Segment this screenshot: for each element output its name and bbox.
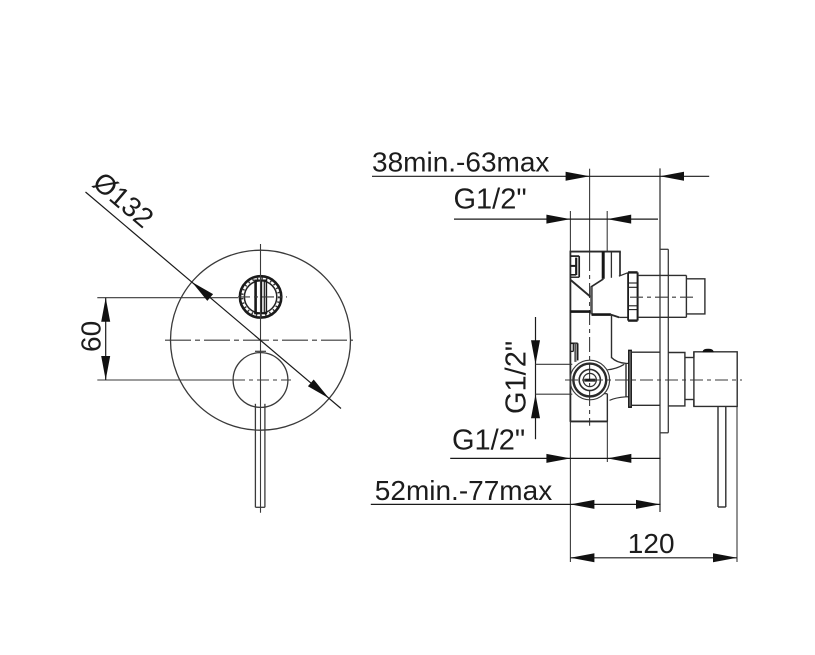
arrowhead lower on circle: [308, 380, 329, 399]
knob slot: [254, 280, 267, 314]
top tube: [603, 252, 620, 279]
svg-text:120: 120: [628, 528, 675, 559]
centerline B x=589.6: [589, 169, 591, 256]
hex nut: [628, 272, 638, 320]
lower flange: [629, 350, 631, 407]
svg-text:G1/2": G1/2": [501, 341, 533, 414]
big diagonal from clip to neck: [571, 280, 591, 297]
upper valve body top edge: [570, 251, 621, 253]
handle lever front view: [255, 404, 265, 508]
neck horizontals to flange: [626, 362, 629, 364]
extension line F x=737: [736, 406, 738, 562]
cartridge circles: [570, 360, 610, 400]
extension line C lower x=607.35: [606, 422, 608, 462]
chamfer diagonal tube to nut: [619, 273, 628, 276]
extension/body line A x=570.4: [569, 211, 571, 252]
dimension 60 extension line top: [97, 297, 238, 299]
lower outlet centerline: [565, 379, 742, 381]
svg-text:G1/2": G1/2": [452, 425, 525, 457]
thick neck bar: [590, 287, 593, 314]
handle lever side view: [718, 406, 726, 507]
dimension 60 extension line bottom: [97, 379, 233, 381]
dimension D132 leader line: [86, 192, 342, 409]
svg-text:52min.-77max: 52min.-77max: [375, 475, 552, 506]
pipe end block: [686, 279, 705, 314]
shelf 2: [592, 313, 611, 316]
set screw bump: [703, 350, 712, 352]
arrowhead upper on circle: [192, 282, 213, 301]
shelf 1: [570, 310, 590, 313]
svg-text:60: 60: [76, 321, 107, 352]
lower body right edge: [611, 315, 613, 358]
handle base circle: [233, 353, 288, 408]
upper outlet centerline: [630, 296, 697, 298]
diverter knob outer ring: [240, 276, 281, 317]
pipe end face before flange: [625, 363, 627, 396]
horizontal centerline of plate: [165, 339, 353, 341]
fillet curves to outlet pipe: [612, 358, 627, 364]
vertical centerline of plate: [260, 244, 262, 513]
svg-text:38min.-63max: 38min.-63max: [372, 146, 549, 177]
hub behind plate: [668, 352, 694, 407]
svg-text:G1/2": G1/2": [454, 183, 527, 215]
dimension 60 line: [105, 298, 107, 380]
step under circle: [605, 393, 608, 395]
chamfer diagonal tube to neck: [591, 279, 604, 287]
shelf diagonal to pipe bottom: [611, 315, 619, 318]
diverter knob inner circle: [244, 281, 276, 313]
body bottom: [570, 420, 607, 422]
escutcheon plate circle: [171, 250, 351, 430]
handle socket tick: [255, 350, 266, 352]
upper outlet pipe: [638, 275, 705, 317]
lower clip: [570, 343, 577, 362]
extension line C upper x=607.2: [606, 211, 608, 251]
wall plate: [660, 168, 668, 512]
handle block: [694, 352, 737, 407]
upper clip: [570, 256, 579, 277]
diverter knob knurl ticks: [242, 279, 279, 316]
sleeve to wall plate: [631, 352, 660, 405]
